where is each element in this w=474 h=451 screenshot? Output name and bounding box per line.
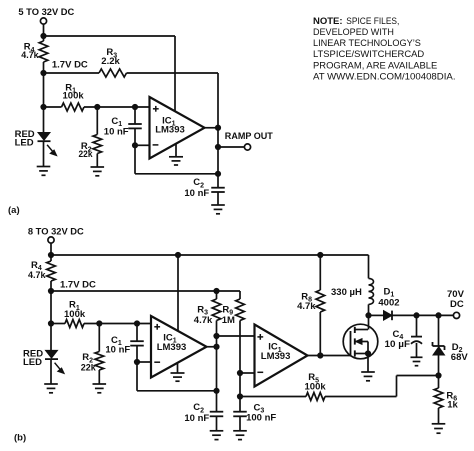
svg-text:LED: LED [15,138,34,149]
svg-text:LINEAR TECHNOLOGY’S: LINEAR TECHNOLOGY’S [313,38,421,49]
svg-text:10 µF: 10 µF [385,339,411,350]
svg-text:(a): (a) [8,205,20,216]
svg-text:68V: 68V [451,352,469,363]
svg-text:NOTE:: NOTE: [313,16,343,27]
svg-text:330 µH: 330 µH [331,287,362,298]
svg-text:10 nF: 10 nF [104,127,129,138]
svg-text:PROGRAM, ARE AVAILABLE: PROGRAM, ARE AVAILABLE [313,61,437,72]
svg-text:22k: 22k [81,363,97,374]
svg-text:4.7k: 4.7k [194,315,213,326]
svg-text:LM393: LM393 [261,351,291,362]
svg-text:SPICE FILES,: SPICE FILES, [346,16,399,27]
svg-text:1.7V DC: 1.7V DC [52,60,88,71]
svg-text:AT WWW.EDN.COM/100408DIA.: AT WWW.EDN.COM/100408DIA. [313,72,456,83]
svg-text:22k: 22k [79,149,94,160]
svg-text:100k: 100k [64,309,86,320]
svg-text:LM393: LM393 [157,342,187,353]
svg-text:100k: 100k [63,90,85,101]
svg-text:LTSPICE/SWITCHERCAD: LTSPICE/SWITCHERCAD [313,49,424,60]
svg-text:4.7k: 4.7k [21,50,39,61]
svg-text:DC: DC [450,299,464,310]
svg-text:4.7k: 4.7k [28,270,46,281]
svg-text:1.7V DC: 1.7V DC [60,280,96,291]
svg-text:100k: 100k [305,382,327,393]
svg-text:LM393: LM393 [155,125,185,136]
svg-text:4.7k: 4.7k [297,301,316,312]
svg-text:8 TO 32V DC: 8 TO 32V DC [28,227,84,238]
svg-text:LED: LED [23,357,42,368]
svg-text:DEVELOPED WITH: DEVELOPED WITH [313,27,394,38]
svg-text:10 nF: 10 nF [184,188,209,199]
svg-text:RAMP OUT: RAMP OUT [225,131,273,142]
svg-text:10 nF: 10 nF [105,344,130,355]
svg-text:10 nF: 10 nF [184,413,209,424]
svg-text:100 nF: 100 nF [246,413,276,424]
svg-text:1k: 1k [447,400,458,411]
svg-text:5 TO 32V DC: 5 TO 32V DC [18,7,74,18]
svg-text:2.2k: 2.2k [101,56,120,67]
svg-text:4002: 4002 [378,297,399,308]
svg-text:(b): (b) [14,432,26,443]
svg-text:1M: 1M [222,315,235,326]
